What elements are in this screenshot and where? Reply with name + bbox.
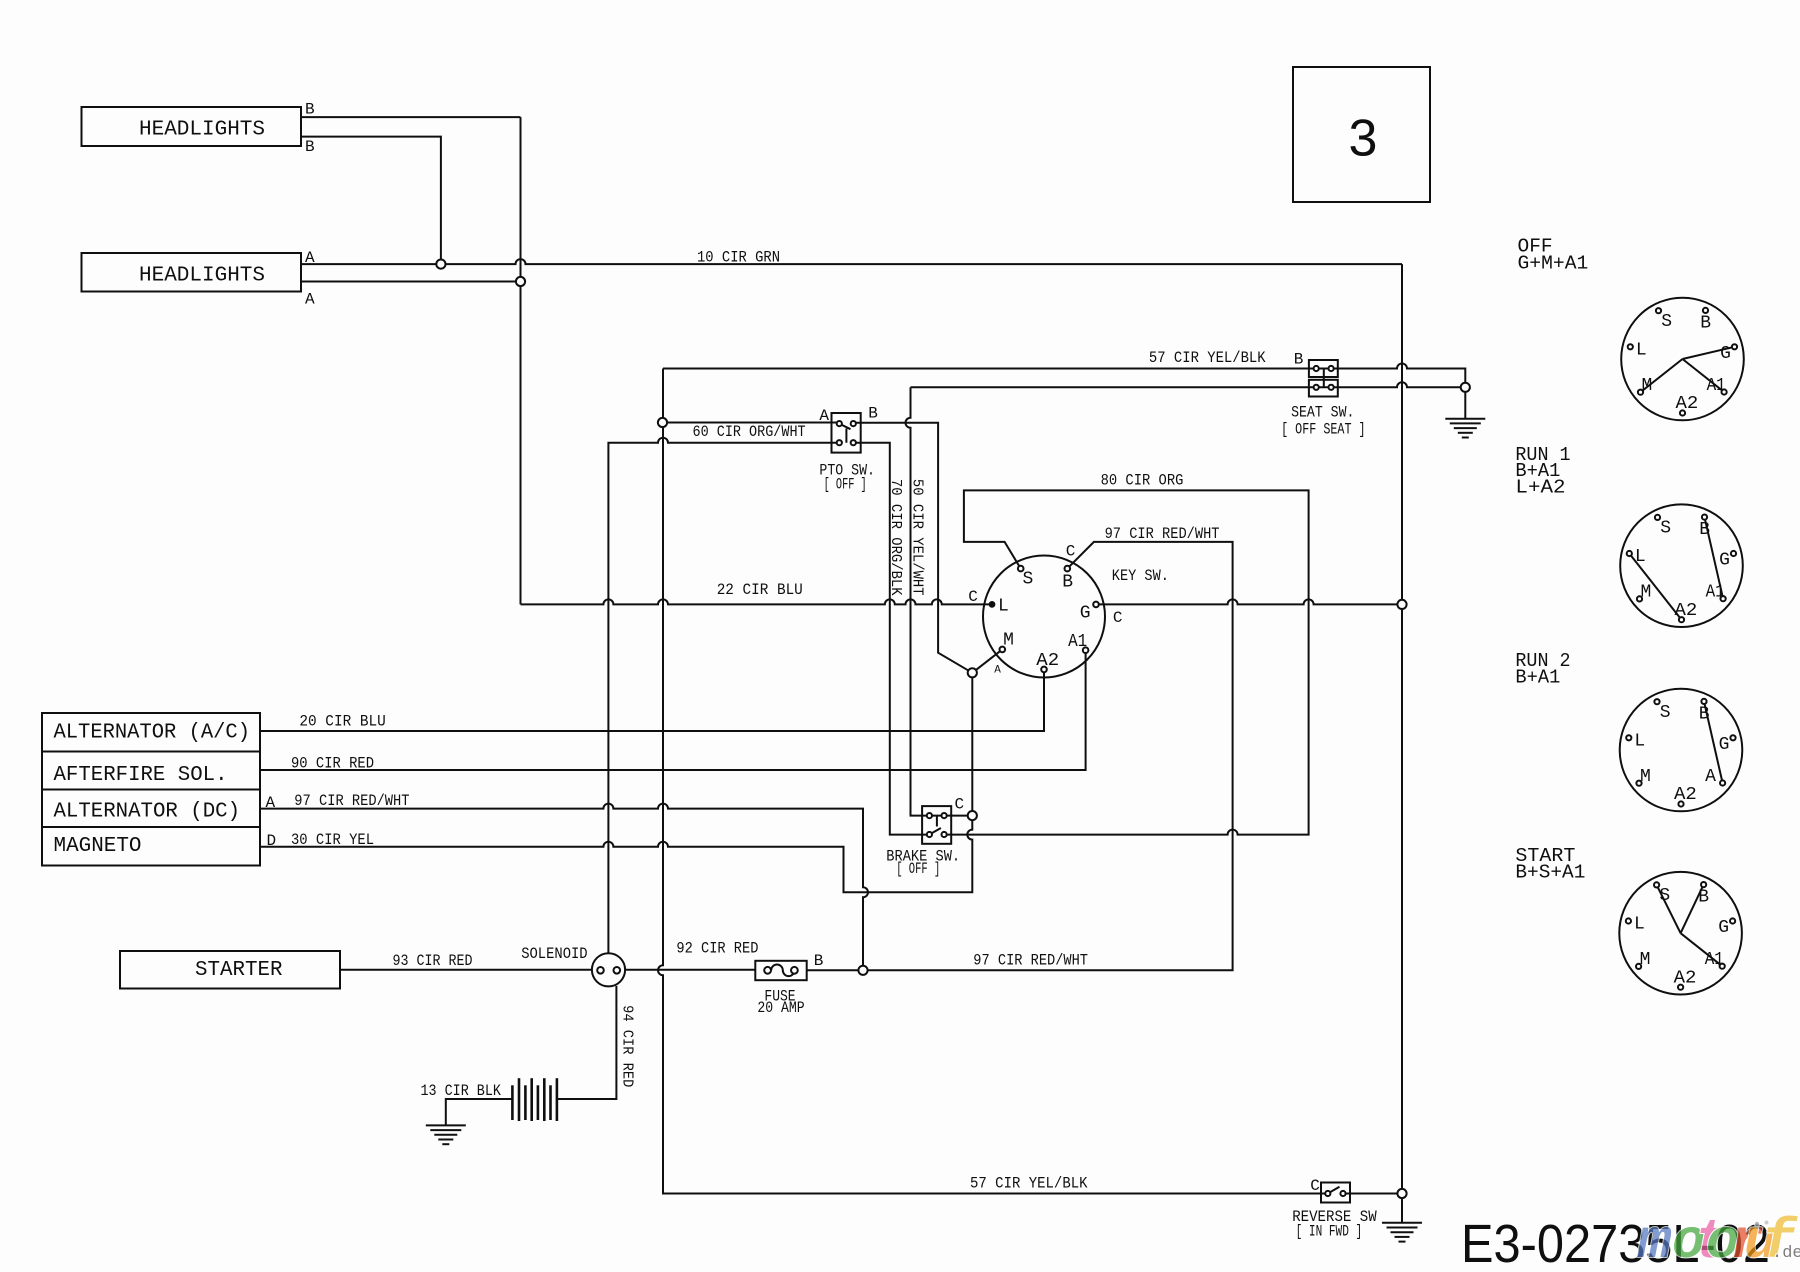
svg-text:A: A: [1705, 767, 1716, 787]
wire right ground bus x=1402: [1401, 264, 1403, 1223]
svg-text:M: M: [1640, 950, 1651, 970]
wire 93 CIR RED starter to solenoid: [340, 969, 592, 971]
ground at battery: [426, 1125, 466, 1144]
svg-text:A: A: [305, 291, 315, 309]
svg-text:[ OFF SEAT ]: [ OFF SEAT ]: [1281, 420, 1366, 438]
wire fuse output: [807, 969, 863, 971]
junction node reverse switch ground: [1397, 1189, 1406, 1198]
junction node fuse / 97: [858, 966, 867, 975]
svg-text:G: G: [1719, 735, 1730, 755]
svg-text:G: G: [1718, 918, 1729, 938]
svg-text:A1: A1: [1705, 950, 1724, 970]
svg-text:G+M+A1: G+M+A1: [1518, 252, 1589, 274]
svg-text:B: B: [305, 101, 315, 119]
wire 90 CIR RED afterfire solenoid to key A1: [260, 650, 1086, 770]
alternator DC box: [42, 790, 260, 828]
PTO switch PTO SW. [OFF]: [832, 413, 861, 453]
svg-text:G: G: [1080, 604, 1091, 624]
wire 70 CIR ORG/BLK PTO to brake switch: [853, 443, 929, 835]
junction node G to ground bus: [1397, 600, 1406, 609]
wire left bus x=663 with 57 CIR YEL/BLK bottom to reverse switch: [658, 369, 1328, 1194]
svg-text:B: B: [1699, 520, 1710, 540]
svg-text:97 CIR RED/WHT: 97 CIR RED/WHT: [973, 952, 1088, 970]
svg-text:M: M: [1642, 376, 1653, 396]
magneto box: [42, 827, 260, 866]
svg-text:A2: A2: [1675, 601, 1698, 621]
svg-text:93 CIR RED: 93 CIR RED: [393, 952, 473, 970]
svg-text:A: A: [819, 407, 829, 425]
junction node brake C: [968, 811, 977, 820]
wire headlight feed vertical x=520.5: [520, 117, 522, 604]
svg-text:B: B: [1698, 888, 1709, 908]
wire 57 CIR YEL/BLK top to seat switch and ground: [663, 364, 1465, 388]
svg-text:AFTERFIRE SOL.: AFTERFIRE SOL.: [54, 764, 228, 787]
svg-text:A1: A1: [1707, 376, 1726, 396]
wire reverse switch to ground bus: [1343, 1193, 1402, 1195]
svg-text:A2: A2: [1674, 968, 1697, 988]
svg-text:97 CIR RED/WHT: 97 CIR RED/WHT: [294, 792, 409, 810]
svg-text:[ IN FWD ]: [ IN FWD ]: [1296, 1223, 1363, 1241]
watermark motoruf.de: [1637, 1210, 1800, 1272]
svg-text:B: B: [868, 405, 878, 423]
svg-text:STARTER: STARTER: [195, 959, 283, 982]
svg-text:A2: A2: [1676, 394, 1699, 414]
svg-text:A: A: [305, 249, 315, 267]
afterfire solenoid box: [42, 752, 260, 790]
svg-text:S: S: [1661, 312, 1672, 332]
svg-text:HEADLIGHTS: HEADLIGHTS: [139, 119, 265, 142]
junction node headlight A2: [516, 277, 525, 286]
svg-text:SOLENOID: SOLENOID: [521, 945, 587, 963]
wire 60 CIR ORG/WHT to PTO switch A: [663, 422, 840, 424]
seat switch terminals: [1314, 366, 1334, 390]
key switch terminal A1: [1083, 647, 1089, 653]
svg-text:94 CIR RED: 94 CIR RED: [619, 1005, 636, 1087]
svg-text:G: G: [1720, 344, 1731, 364]
key switch terminal A2: [1041, 667, 1047, 673]
svg-text:90 CIR RED: 90 CIR RED: [291, 754, 374, 772]
svg-text:B: B: [1700, 314, 1711, 334]
fuse F1 20 AMP: [755, 961, 806, 980]
wire 80 CIR ORG brake to key switch S: [944, 490, 1309, 834]
svg-text:B: B: [1062, 572, 1073, 592]
wire PTO bottom-left branch: [608, 438, 839, 954]
svg-text:L: L: [998, 597, 1009, 617]
svg-text:20 AMP: 20 AMP: [757, 999, 804, 1017]
svg-text:B: B: [814, 952, 824, 970]
svg-text:m: m: [1637, 1210, 1672, 1272]
svg-text:60 CIR ORG/WHT: 60 CIR ORG/WHT: [693, 423, 806, 441]
wire headlights B top: [301, 116, 521, 118]
svg-text:.de: .de: [1772, 1244, 1800, 1263]
junction node seat switch ground: [1461, 383, 1470, 392]
svg-text:10 CIR GRN: 10 CIR GRN: [697, 249, 780, 267]
ground at seat switch: [1445, 419, 1485, 438]
wire 10 CIR GRN: [301, 259, 1402, 264]
key switch terminal B: [1065, 566, 1071, 572]
wire 97 CIR RED/WHT key switch B to fuse junction: [868, 542, 1233, 970]
svg-text:22 CIR BLU: 22 CIR BLU: [717, 581, 803, 599]
svg-text:C: C: [968, 588, 978, 606]
svg-text:A2: A2: [1674, 785, 1697, 805]
wire seat switch ground stub: [1464, 387, 1466, 418]
svg-text:[ OFF ]: [ OFF ]: [824, 476, 867, 494]
svg-text:57 CIR YEL/BLK: 57 CIR YEL/BLK: [1149, 349, 1266, 367]
alternator AC box: [42, 713, 260, 752]
wire key switch M diagonal: [972, 649, 1002, 672]
svg-text:57 CIR YEL/BLK: 57 CIR YEL/BLK: [970, 1175, 1088, 1193]
svg-text:3: 3: [1349, 110, 1378, 168]
brake switch terminals: [927, 813, 947, 837]
svg-text:97 CIR RED/WHT: 97 CIR RED/WHT: [1105, 525, 1220, 543]
page number box 3: [1293, 67, 1430, 202]
wire headlights A bottom: [301, 281, 521, 283]
wire 97 CIR RED/WHT alternator DC branch: [260, 804, 868, 971]
headlights box 1: [82, 107, 302, 146]
svg-text:L+A2: L+A2: [1515, 476, 1565, 498]
svg-text:70 CIR ORG/BLK: 70 CIR ORG/BLK: [887, 479, 904, 596]
svg-text:G: G: [1719, 551, 1730, 571]
svg-text:C: C: [1310, 1177, 1320, 1195]
svg-text:C: C: [955, 796, 965, 814]
svg-text:A1: A1: [1706, 583, 1725, 603]
wire 20 CIR BLU alternator AC to key A2: [260, 669, 1044, 731]
ignition diagram RUN 1 circle: [1620, 504, 1743, 627]
key switch terminal L: [989, 601, 996, 608]
headlights box 2: [82, 253, 302, 292]
svg-text:50 CIR YEL/WHT: 50 CIR YEL/WHT: [909, 479, 926, 596]
starter box: [120, 951, 340, 989]
seat switch SEAT SW. [OFF SEAT]: [1309, 360, 1338, 377]
svg-text:L: L: [1634, 731, 1645, 751]
svg-text:ALTERNATOR (A/C): ALTERNATOR (A/C): [54, 721, 251, 744]
svg-text:B: B: [1294, 350, 1304, 368]
brake switch BRAKE SW. [OFF]: [922, 806, 951, 844]
junction node headlight A: [436, 260, 445, 269]
svg-text:B+A1: B+A1: [1515, 667, 1560, 689]
svg-text:92 CIR RED: 92 CIR RED: [676, 940, 758, 958]
svg-text:L: L: [1635, 547, 1646, 567]
reverse switch terminals: [1325, 1191, 1345, 1196]
ignition diagram RUN 2 circle: [1620, 689, 1743, 812]
key switch terminal M: [1000, 647, 1006, 653]
svg-text:30 CIR YEL: 30 CIR YEL: [291, 831, 374, 849]
svg-text:SEAT SW.: SEAT SW.: [1291, 404, 1354, 422]
svg-text:L: L: [1636, 340, 1647, 360]
key switch terminal G: [1093, 602, 1099, 608]
svg-text:A: A: [266, 794, 276, 812]
svg-text:80 CIR ORG: 80 CIR ORG: [1101, 471, 1184, 489]
svg-text:A2: A2: [1036, 651, 1059, 671]
svg-text:M: M: [1640, 767, 1651, 787]
wire brake C junction up to key M junction: [971, 673, 973, 816]
svg-text:B: B: [1699, 705, 1710, 725]
svg-text:L: L: [1634, 915, 1645, 935]
svg-text:S: S: [1660, 703, 1671, 723]
svg-text:S: S: [1023, 570, 1034, 590]
key switch terminal S: [1018, 566, 1024, 572]
wire 30 CIR YEL magneto to brake C: [260, 816, 972, 893]
battery: [512, 1078, 557, 1121]
wire PTO switch B down to key M junction: [853, 423, 972, 673]
wire headlights B bottom: [301, 137, 441, 265]
ignition diagram START circle: [1619, 872, 1742, 995]
PTO switch terminals: [837, 421, 856, 445]
ignition diagram OFF circle: [1621, 298, 1744, 421]
svg-text:MAGNETO: MAGNETO: [54, 835, 142, 858]
reverse switch REVERSE SW [IN FWD]: [1321, 1183, 1350, 1203]
svg-text:D: D: [267, 832, 277, 850]
wire seat switch lower line: [911, 382, 1466, 387]
svg-text:C: C: [1113, 609, 1123, 627]
svg-text:ALTERNATOR (DC): ALTERNATOR (DC): [54, 801, 241, 824]
svg-text:13 CIR BLK: 13 CIR BLK: [421, 1082, 502, 1100]
svg-text:S: S: [1660, 519, 1671, 539]
svg-text:S: S: [1659, 886, 1670, 906]
svg-text:20 CIR BLU: 20 CIR BLU: [299, 713, 385, 731]
svg-text:C: C: [1066, 542, 1076, 560]
svg-text:M: M: [1003, 631, 1014, 651]
svg-text:M: M: [1641, 583, 1652, 603]
svg-text:B: B: [305, 138, 315, 156]
junction node key M / A: [968, 668, 977, 677]
wire 22 CIR BLU to key switch L: [521, 599, 993, 604]
ground at reverse switch: [1382, 1223, 1422, 1242]
junction node 60 CIR ORG/WHT: [658, 418, 667, 427]
wire 92 CIR RED solenoid to fuse: [625, 969, 755, 971]
solenoid: [592, 953, 625, 986]
svg-text:A1: A1: [1068, 632, 1087, 652]
wire 94 CIR RED solenoid to battery: [557, 986, 617, 1099]
wire 13 CIR BLK battery to ground: [446, 1099, 513, 1125]
wire key switch G to ground bus: [1096, 599, 1402, 604]
wire 50 CIR YEL/WHT seat to brake switch: [906, 387, 968, 815]
svg-text:HEADLIGHTS: HEADLIGHTS: [139, 265, 265, 288]
svg-text:B+S+A1: B+S+A1: [1515, 862, 1585, 884]
svg-text:KEY SW.: KEY SW.: [1112, 567, 1169, 585]
svg-text:[ OFF ]: [ OFF ]: [896, 860, 940, 878]
svg-text:A: A: [994, 664, 1001, 676]
key switch KEY SW. circle: [983, 556, 1105, 678]
